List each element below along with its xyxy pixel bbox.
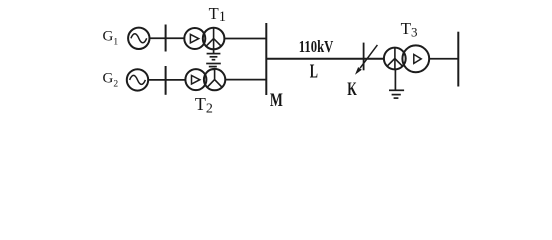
- transformer T1: [184, 28, 224, 50]
- wire G2 to T2: [148, 79, 185, 81]
- ground (T1 neutral): [207, 49, 221, 60]
- svg-text:K: K: [347, 79, 357, 100]
- bus tick at G1 terminal: [165, 25, 167, 52]
- line L (110kV transmission line): [266, 58, 384, 60]
- ground (T2 neutral, above): [206, 64, 221, 70]
- bus tick at G2 terminal: [165, 66, 167, 95]
- generator G2: [127, 69, 148, 90]
- svg-text:110kV: 110kV: [299, 37, 334, 56]
- transformer T2: [185, 69, 225, 90]
- svg-text:T3: T3: [401, 19, 418, 39]
- fault arrow K: [355, 45, 377, 75]
- ground (T3 neutral): [389, 69, 404, 98]
- wire T3 to load bus: [429, 58, 458, 60]
- svg-text:L: L: [310, 61, 318, 83]
- fault tick at K: [363, 43, 365, 71]
- svg-text:G1: G1: [103, 29, 119, 48]
- svg-text:G2: G2: [103, 71, 119, 90]
- transformer T3: [384, 45, 429, 72]
- bus M: [265, 23, 267, 95]
- svg-text:M: M: [270, 91, 283, 111]
- svg-text:T2: T2: [195, 94, 213, 117]
- svg-text:T1: T1: [209, 4, 226, 25]
- generator G1: [128, 28, 149, 49]
- wire T1 to bus M: [224, 38, 266, 40]
- wire G1 to T1: [150, 37, 185, 39]
- load bus (right): [457, 32, 459, 87]
- wire T2 to bus M: [225, 79, 266, 81]
